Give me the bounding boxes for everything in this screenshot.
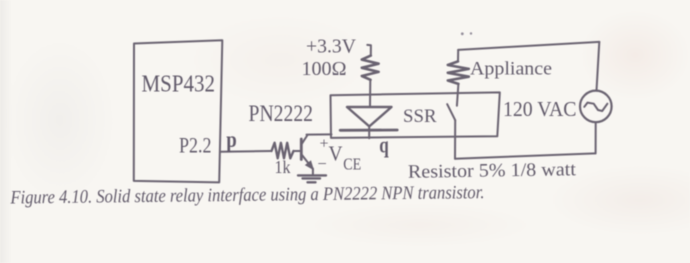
LED cathode lead	[368, 126, 370, 138]
svg-text:q: q	[379, 133, 389, 158]
svg-text:V: V	[329, 142, 343, 166]
svg-text:Appliance: Appliance	[470, 58, 552, 79]
svg-text:CE: CE	[343, 155, 361, 174]
switch S1 bottom lead	[454, 120, 456, 159]
svg-text:+3.3V: +3.3V	[306, 37, 356, 58]
svg-text:+: +	[320, 136, 329, 153]
emitter arrowhead	[306, 161, 314, 169]
wire top to R3 appliance	[457, 50, 459, 62]
resistor R3 appliance	[448, 61, 469, 84]
emitter wire to ground	[312, 169, 314, 176]
resistor R1 1k	[272, 143, 294, 159]
svg-text:100Ω: 100Ω	[302, 58, 347, 80]
svg-text:Resistor 5% 1/8 watt: Resistor 5% 1/8 watt	[408, 159, 577, 183]
resistor R2 100 ohm	[362, 56, 379, 80]
MSP432 box U1	[134, 40, 223, 182]
LED cathode bar	[340, 129, 397, 132]
svg-text:PN2222: PN2222	[249, 101, 314, 126]
wire R3 to switch S1	[457, 84, 459, 106]
svg-text:MSP432: MSP432	[142, 71, 216, 97]
Q1 collector lead	[302, 135, 308, 144]
wire AC source top	[597, 42, 600, 91]
scan artifact dots	[461, 32, 464, 35]
ground	[298, 175, 326, 182]
transistor Q1 PN2222 base bar	[300, 139, 303, 160]
bottom wire of AC loop	[455, 153, 596, 158]
+3.3V supply tick	[367, 45, 371, 56]
collector wire to SSR box	[307, 133, 332, 135]
wire R1 to Q1 base	[294, 150, 301, 152]
svg-text:p: p	[226, 127, 237, 152]
svg-text:P2.2: P2.2	[179, 132, 212, 157]
wire P2.2 pin to R1	[220, 150, 271, 153]
AC source sine wave	[584, 103, 607, 111]
svg-text:120 VAC: 120 VAC	[503, 97, 577, 121]
LED anode wire from R2	[369, 80, 371, 107]
svg-text:1k: 1k	[275, 157, 291, 177]
switch S1 blade	[447, 104, 455, 120]
svg-text:SSR: SSR	[403, 107, 437, 127]
SSR box	[331, 92, 500, 137]
top wire of AC loop	[458, 42, 599, 50]
Q1 emitter lead	[302, 155, 313, 168]
wire AC source bottom	[595, 122, 597, 153]
svg-text:−: −	[318, 154, 327, 173]
AC source V1 circle	[580, 91, 612, 123]
LED triangle	[347, 107, 392, 126]
